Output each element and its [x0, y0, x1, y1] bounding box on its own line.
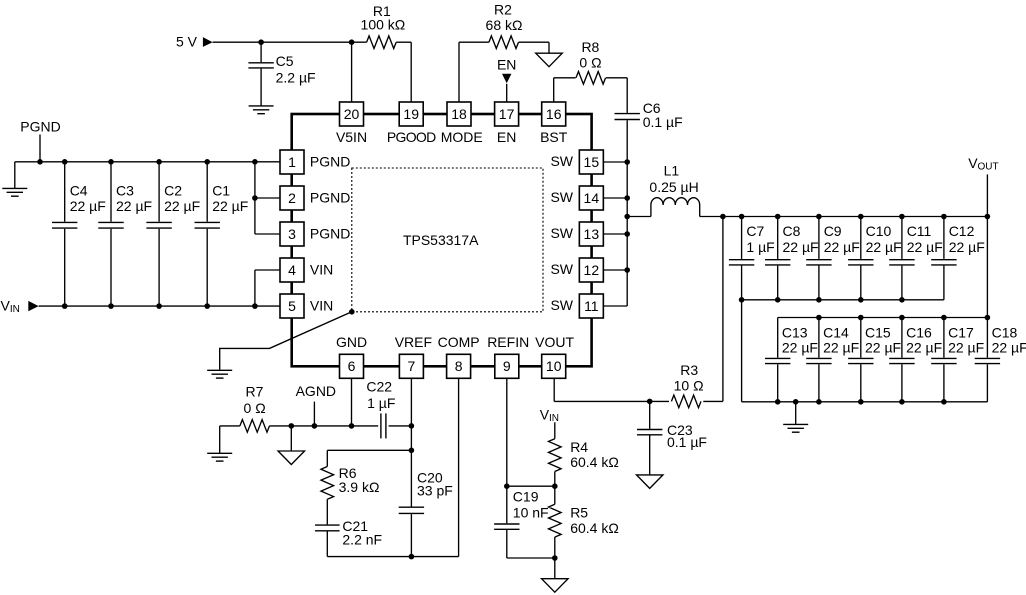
label C2: [164, 182, 182, 198]
svg-text:C13: C13: [782, 324, 808, 340]
ground output bank: [783, 424, 808, 432]
wire VIN rail: [39, 305, 280, 307]
pin 12 (SW): [550, 258, 603, 282]
svg-text:C10: C10: [866, 223, 892, 239]
label R6 value 3.9 k&#937;: [339, 479, 380, 495]
label C11: [907, 223, 932, 239]
pin 14 (SW): [550, 186, 603, 210]
svg-text:C16: C16: [906, 324, 932, 340]
capacitor C17: [931, 318, 956, 402]
svg-text:2.2 µF: 2.2 µF: [276, 70, 316, 86]
label TPS53317A: [403, 232, 479, 248]
label C5: [276, 53, 294, 69]
svg-text:4: 4: [288, 262, 296, 278]
pin 7 (VREF): [395, 334, 432, 379]
svg-text:AGND: AGND: [296, 383, 336, 399]
label C16: [906, 324, 932, 340]
svg-text:C4: C4: [70, 182, 88, 198]
wire V5IN drop: [351, 42, 353, 102]
wire SW bus: [604, 120, 628, 306]
junction C22 tap: [409, 423, 415, 429]
label R1: [373, 3, 391, 19]
junction bank2 bottom: [816, 399, 822, 405]
svg-text:22 µF: 22 µF: [70, 198, 106, 214]
junction SW bus: [624, 231, 630, 237]
svg-text:R3: R3: [680, 362, 698, 378]
wire R2 to ground: [519, 42, 549, 53]
wire pin4 link: [255, 270, 280, 306]
svg-text:GND: GND: [336, 334, 367, 350]
label C7 value: [746, 239, 774, 255]
label C10: [866, 223, 892, 239]
wire exposed pad tie: [220, 312, 352, 370]
svg-text:1: 1: [288, 154, 296, 170]
label C22 value 1 &#181;F: [367, 395, 395, 411]
svg-text:22 µF: 22 µF: [823, 339, 859, 355]
svg-text:22 µF: 22 µF: [212, 198, 248, 214]
label 0.25 &#181;H: [649, 179, 698, 195]
junction cap column: [816, 214, 822, 220]
junction R6 branch: [409, 448, 415, 454]
svg-text:C12: C12: [949, 223, 975, 239]
label C22: [366, 378, 392, 394]
wire 5V rail: [213, 41, 367, 43]
pin 6 (GND): [336, 334, 367, 379]
junction SW bus: [624, 195, 630, 201]
capacitor C1: [195, 162, 220, 306]
junction comp rail: [409, 554, 415, 560]
junction bank2 bottom: [858, 399, 864, 405]
wire REFIN to divider: [507, 485, 555, 487]
pin 10 (VOUT): [535, 334, 574, 379]
wire bank2 bottom rail: [742, 401, 988, 403]
resistor R8: [576, 72, 606, 85]
label C2 value 22 &#181;F: [164, 198, 200, 214]
wire R7 ground lead: [220, 426, 240, 453]
capacitor C23: [637, 401, 662, 475]
wire SW pin 13 stub: [604, 233, 628, 235]
ground R2 (analog triangle): [536, 53, 563, 66]
ground C23 (analog triangle): [636, 475, 663, 489]
resistor R5: [549, 504, 562, 537]
pin 18 (MODE): [441, 102, 483, 145]
svg-text:C19: C19: [513, 489, 539, 505]
capacitor C5: [248, 42, 273, 106]
svg-text:22 µF: 22 µF: [865, 339, 901, 355]
svg-text:10: 10: [546, 358, 562, 374]
wire R4 to node: [554, 472, 556, 487]
label C11 value: [907, 239, 943, 255]
junction C23 tap: [647, 399, 653, 405]
junction bank1 bottom: [816, 297, 822, 303]
junction SW bus: [624, 159, 630, 165]
label C3: [116, 182, 134, 198]
svg-text:V5IN: V5IN: [336, 129, 367, 145]
svg-text:C8: C8: [783, 223, 801, 239]
svg-text:0.1 µF: 0.1 µF: [643, 114, 683, 130]
label C20: [417, 470, 443, 486]
label C15 value: [865, 339, 901, 355]
wire SW pin 15 stub: [604, 161, 628, 163]
svg-text:14: 14: [584, 190, 600, 206]
label C10 value: [866, 239, 902, 255]
svg-text:SW: SW: [550, 297, 573, 313]
junction VIN rail: [204, 303, 210, 309]
label C19: [513, 489, 539, 505]
junction cap column: [858, 214, 864, 220]
wire AGND triangle stub: [290, 426, 292, 451]
resistor R7: [240, 420, 270, 433]
junction divider mid: [552, 483, 558, 489]
svg-text:60.4 kΩ: 60.4 kΩ: [570, 520, 619, 536]
svg-text:19: 19: [403, 106, 419, 122]
svg-text:22 µF: 22 µF: [949, 239, 985, 255]
svg-text:TPS53317A: TPS53317A: [403, 232, 479, 248]
svg-text:20: 20: [344, 106, 360, 122]
svg-text:0 Ω: 0 Ω: [579, 54, 601, 70]
svg-text:C22: C22: [366, 378, 392, 394]
svg-text:C7: C7: [746, 223, 764, 239]
svg-text:VOUT: VOUT: [535, 334, 574, 350]
wire SW pin 12 stub: [604, 269, 628, 271]
capacitor C12: [931, 217, 956, 300]
svg-text:PGND: PGND: [310, 225, 350, 241]
svg-text:C5: C5: [276, 53, 294, 69]
wire REFIN drop: [506, 378, 508, 486]
node V_OUT label: [968, 155, 998, 172]
svg-text:PGOOD: PGOOD: [387, 129, 436, 145]
label C20 value 33 pF: [417, 482, 453, 498]
junction bank1 bottom: [858, 297, 864, 303]
junction cap column: [739, 214, 745, 220]
svg-text:9: 9: [503, 358, 511, 374]
node V_IN label: [1, 298, 20, 315]
label C14: [823, 324, 849, 340]
node 5 V label: [176, 34, 198, 50]
label C17: [948, 324, 974, 340]
junction REFIN node: [504, 483, 510, 489]
capacitor C15: [848, 318, 873, 402]
svg-text:18: 18: [451, 106, 467, 122]
label C16 value: [906, 339, 942, 355]
label C14 value: [823, 339, 859, 355]
svg-text:2: 2: [288, 190, 296, 206]
svg-text:5 V: 5 V: [176, 34, 198, 50]
svg-text:10 nF: 10 nF: [513, 504, 549, 520]
capacitor C18: [975, 318, 1000, 402]
label R5 value 60.4 k&#937;: [570, 520, 619, 536]
junction bank2 top: [941, 315, 947, 321]
svg-text:22 µF: 22 µF: [866, 239, 902, 255]
label C9 value: [824, 239, 860, 255]
label 68 k&#937;: [486, 17, 523, 33]
junction PGND rail: [156, 159, 162, 165]
junction bank2 top: [858, 315, 864, 321]
junction GND pin: [349, 423, 355, 429]
label R4 value 60.4 k&#937;: [570, 454, 619, 470]
capacitor C8: [765, 217, 790, 300]
resistor R1: [367, 36, 397, 49]
resistor R4: [549, 439, 562, 472]
wire VREF drop: [410, 378, 412, 450]
junction bank1 bottom: [739, 297, 745, 303]
label 10 &#937;: [674, 378, 704, 394]
svg-text:C9: C9: [824, 223, 842, 239]
wire VIN divider stub: [554, 422, 556, 438]
label R4: [570, 439, 588, 455]
inductor L1: [627, 198, 700, 217]
junction U1 exposed pad: [349, 309, 355, 315]
svg-text:C14: C14: [823, 324, 849, 340]
wire bank1 bottom rail: [742, 299, 944, 301]
svg-text:L1: L1: [664, 162, 680, 178]
pin 9 (REFIN): [487, 334, 529, 379]
label C13: [782, 324, 808, 340]
node EN label: [497, 56, 516, 72]
capacitor C13: [765, 318, 790, 402]
wire R5 to ground node: [554, 537, 556, 558]
resistor R2: [489, 36, 519, 49]
svg-text:10 Ω: 10 Ω: [674, 378, 704, 394]
label 100 k&#937;: [361, 16, 406, 32]
pin 2 (PGND): [280, 186, 350, 210]
label R3: [680, 362, 698, 378]
label L1: [664, 162, 680, 178]
svg-text:C1: C1: [212, 182, 230, 198]
junction R5 bottom: [552, 555, 558, 561]
capacitor C6: [615, 114, 640, 120]
svg-text:C11: C11: [907, 223, 932, 239]
ground exposed pad: [207, 370, 232, 378]
junction PGND rail: [37, 159, 43, 165]
junction bank2 bottom: [941, 399, 947, 405]
wire BST riser: [554, 78, 576, 102]
junction bank2 top: [816, 315, 822, 321]
node V_IN divider label: [540, 407, 559, 424]
svg-text:SW: SW: [550, 261, 573, 277]
wire comp bottom rail: [327, 378, 458, 556]
node EN input arrow: [502, 74, 511, 84]
resistor R6: [321, 467, 334, 500]
svg-text:EN: EN: [497, 56, 516, 72]
ground AGND (analog triangle): [278, 451, 305, 465]
svg-text:R2: R2: [494, 2, 512, 18]
label C1 value 22 &#181;F: [212, 198, 248, 214]
IC U1 TPS53317A body: [292, 114, 592, 366]
label C9: [824, 223, 842, 239]
node PGND label: [20, 119, 60, 135]
junction PGND rail: [204, 159, 210, 165]
label C4 value 22 &#181;F: [70, 198, 106, 214]
svg-text:PGND: PGND: [310, 153, 350, 169]
label C4: [70, 182, 88, 198]
label C8: [783, 223, 801, 239]
junction VIN rail: [62, 303, 68, 309]
svg-text:C18: C18: [992, 324, 1018, 340]
junction R3 column: [720, 214, 726, 220]
svg-text:5: 5: [288, 298, 296, 314]
junction SW-L1 tap: [624, 214, 630, 220]
junction VIN rail: [252, 303, 258, 309]
node AGND label: [296, 383, 336, 399]
capacitor C14: [806, 318, 831, 402]
wire bank2 top rail: [778, 317, 988, 319]
junction PGND rail: [62, 159, 68, 165]
wire MODE riser: [459, 42, 489, 102]
capacitor C21: [315, 525, 340, 557]
svg-text:R7: R7: [246, 383, 264, 399]
wire R3 to VOUT pin: [554, 378, 669, 401]
junction VIN rail: [156, 303, 162, 309]
label C1: [212, 182, 230, 198]
capacitor C2: [146, 162, 171, 306]
node V_IN input arrow: [28, 301, 38, 311]
label R7: [246, 383, 264, 399]
junction PGND rail: [252, 159, 258, 165]
label C15: [865, 324, 891, 340]
junction bank2 bottom: [775, 399, 781, 405]
resistor R3: [671, 395, 701, 408]
svg-text:R4: R4: [570, 439, 588, 455]
svg-text:6: 6: [348, 358, 356, 374]
svg-text:C17: C17: [948, 324, 974, 340]
junction cap column: [899, 214, 905, 220]
label C18 value: [992, 339, 1026, 355]
label R7 value 0 &#937;: [244, 400, 266, 416]
junction bank2 top: [899, 315, 905, 321]
label C21: [342, 518, 368, 534]
svg-text:3.9 kΩ: 3.9 kΩ: [339, 479, 380, 495]
svg-text:C3: C3: [116, 182, 134, 198]
capacitor C7: [729, 217, 754, 300]
svg-text:MODE: MODE: [441, 129, 483, 145]
label C18: [992, 324, 1018, 340]
svg-text:22 µF: 22 µF: [783, 239, 819, 255]
label C17 value: [948, 339, 984, 355]
svg-text:0.25 µH: 0.25 µH: [649, 179, 698, 195]
capacitor C4: [52, 162, 77, 306]
label C21 value 2.2 nF: [342, 531, 382, 547]
wire VOUT top rail: [700, 216, 988, 218]
svg-text:SW: SW: [550, 189, 573, 205]
svg-text:1 µF: 1 µF: [746, 239, 774, 255]
label C6: [643, 100, 661, 116]
node 5 V input arrow: [203, 37, 213, 47]
label C19 value 10 nF: [513, 504, 549, 520]
wire GND pin drop: [351, 378, 353, 426]
pin 8 (COMP): [438, 334, 480, 379]
junction bank1 bottom: [775, 297, 781, 303]
capacitor C22: [381, 413, 412, 438]
svg-text:REFIN: REFIN: [487, 334, 529, 350]
wire PGND stub: [39, 135, 41, 162]
pin 15 (SW): [550, 150, 603, 174]
wire PGND rail: [15, 162, 280, 189]
svg-text:PGND: PGND: [20, 119, 60, 135]
capacitor C3: [98, 162, 123, 306]
svg-text:BST: BST: [540, 129, 568, 145]
wire EN stub: [506, 84, 508, 102]
pin 13 (SW): [550, 222, 603, 246]
label 0.1 &#181;F: [643, 114, 683, 130]
label R2: [494, 2, 512, 18]
wire SW pin 14 stub: [604, 197, 628, 199]
svg-text:33 pF: 33 pF: [417, 482, 453, 498]
pin 5 (VIN): [280, 294, 333, 318]
svg-text:22 µF: 22 µF: [906, 339, 942, 355]
junction bank2 bottom: [899, 399, 905, 405]
svg-text:22 µF: 22 µF: [164, 198, 200, 214]
capacitor C11: [889, 217, 914, 300]
wire AGND label stub: [313, 402, 315, 426]
label C7: [746, 223, 764, 239]
svg-text:C2: C2: [164, 182, 182, 198]
pin 1 (PGND): [280, 150, 350, 174]
svg-text:2.2 nF: 2.2 nF: [342, 531, 382, 547]
pin 19 (PGOOD): [387, 102, 436, 145]
junction cap column: [941, 214, 947, 220]
svg-text:68 kΩ: 68 kΩ: [486, 17, 523, 33]
svg-text:60.4 kΩ: 60.4 kΩ: [570, 454, 619, 470]
junction SW bus: [624, 267, 630, 273]
svg-text:3: 3: [288, 226, 296, 242]
wire VOUT to bank2 drop: [986, 217, 988, 318]
pin 11 (SW): [550, 294, 603, 318]
wire R6 branch: [327, 450, 411, 466]
ground C5: [249, 106, 274, 114]
pin 20 (V5IN): [336, 102, 367, 145]
svg-text:0 Ω: 0 Ω: [244, 400, 266, 416]
junction C5 tap: [258, 39, 264, 45]
capacitor C19: [494, 486, 555, 558]
junction VOUT riser: [985, 214, 991, 220]
svg-text:11: 11: [584, 298, 599, 314]
junction bank2 bottom: [793, 399, 799, 405]
svg-text:8: 8: [455, 358, 463, 374]
svg-text:22 µF: 22 µF: [782, 339, 818, 355]
svg-text:C15: C15: [865, 324, 891, 340]
label C23 value 0.1 &#181;F: [667, 434, 707, 450]
label C3 value 22 &#181;F: [116, 198, 152, 214]
wire R8 to C6: [606, 78, 627, 113]
pin 3 (PGND): [280, 222, 350, 246]
label 2.2 &#181;F: [276, 70, 316, 86]
wire bank2 ground stub: [795, 402, 797, 425]
junction cap column: [775, 214, 781, 220]
svg-text:15: 15: [584, 154, 600, 170]
svg-text:R5: R5: [570, 504, 588, 520]
wire pin2/3 link: [255, 162, 280, 234]
capacitor C9: [806, 217, 831, 300]
junction bank2 top: [985, 315, 991, 321]
svg-text:17: 17: [499, 106, 515, 122]
junction AGND stub: [312, 423, 318, 429]
svg-text:16: 16: [546, 106, 562, 122]
ground divider (analog triangle): [542, 579, 569, 593]
wire node to R5: [554, 486, 556, 504]
label C12 value: [949, 239, 985, 255]
label C23: [667, 422, 693, 438]
wire divider ground stub: [554, 558, 556, 579]
label 0 &#937;: [579, 54, 601, 70]
label C13 value: [782, 339, 818, 355]
svg-text:22 µF: 22 µF: [824, 239, 860, 255]
wire VOUT riser: [986, 174, 988, 216]
wire inter-bank drop: [741, 300, 743, 402]
svg-text:22 µF: 22 µF: [948, 339, 984, 355]
junction PGND rail: [108, 159, 114, 165]
pin 16 (BST): [540, 102, 568, 145]
